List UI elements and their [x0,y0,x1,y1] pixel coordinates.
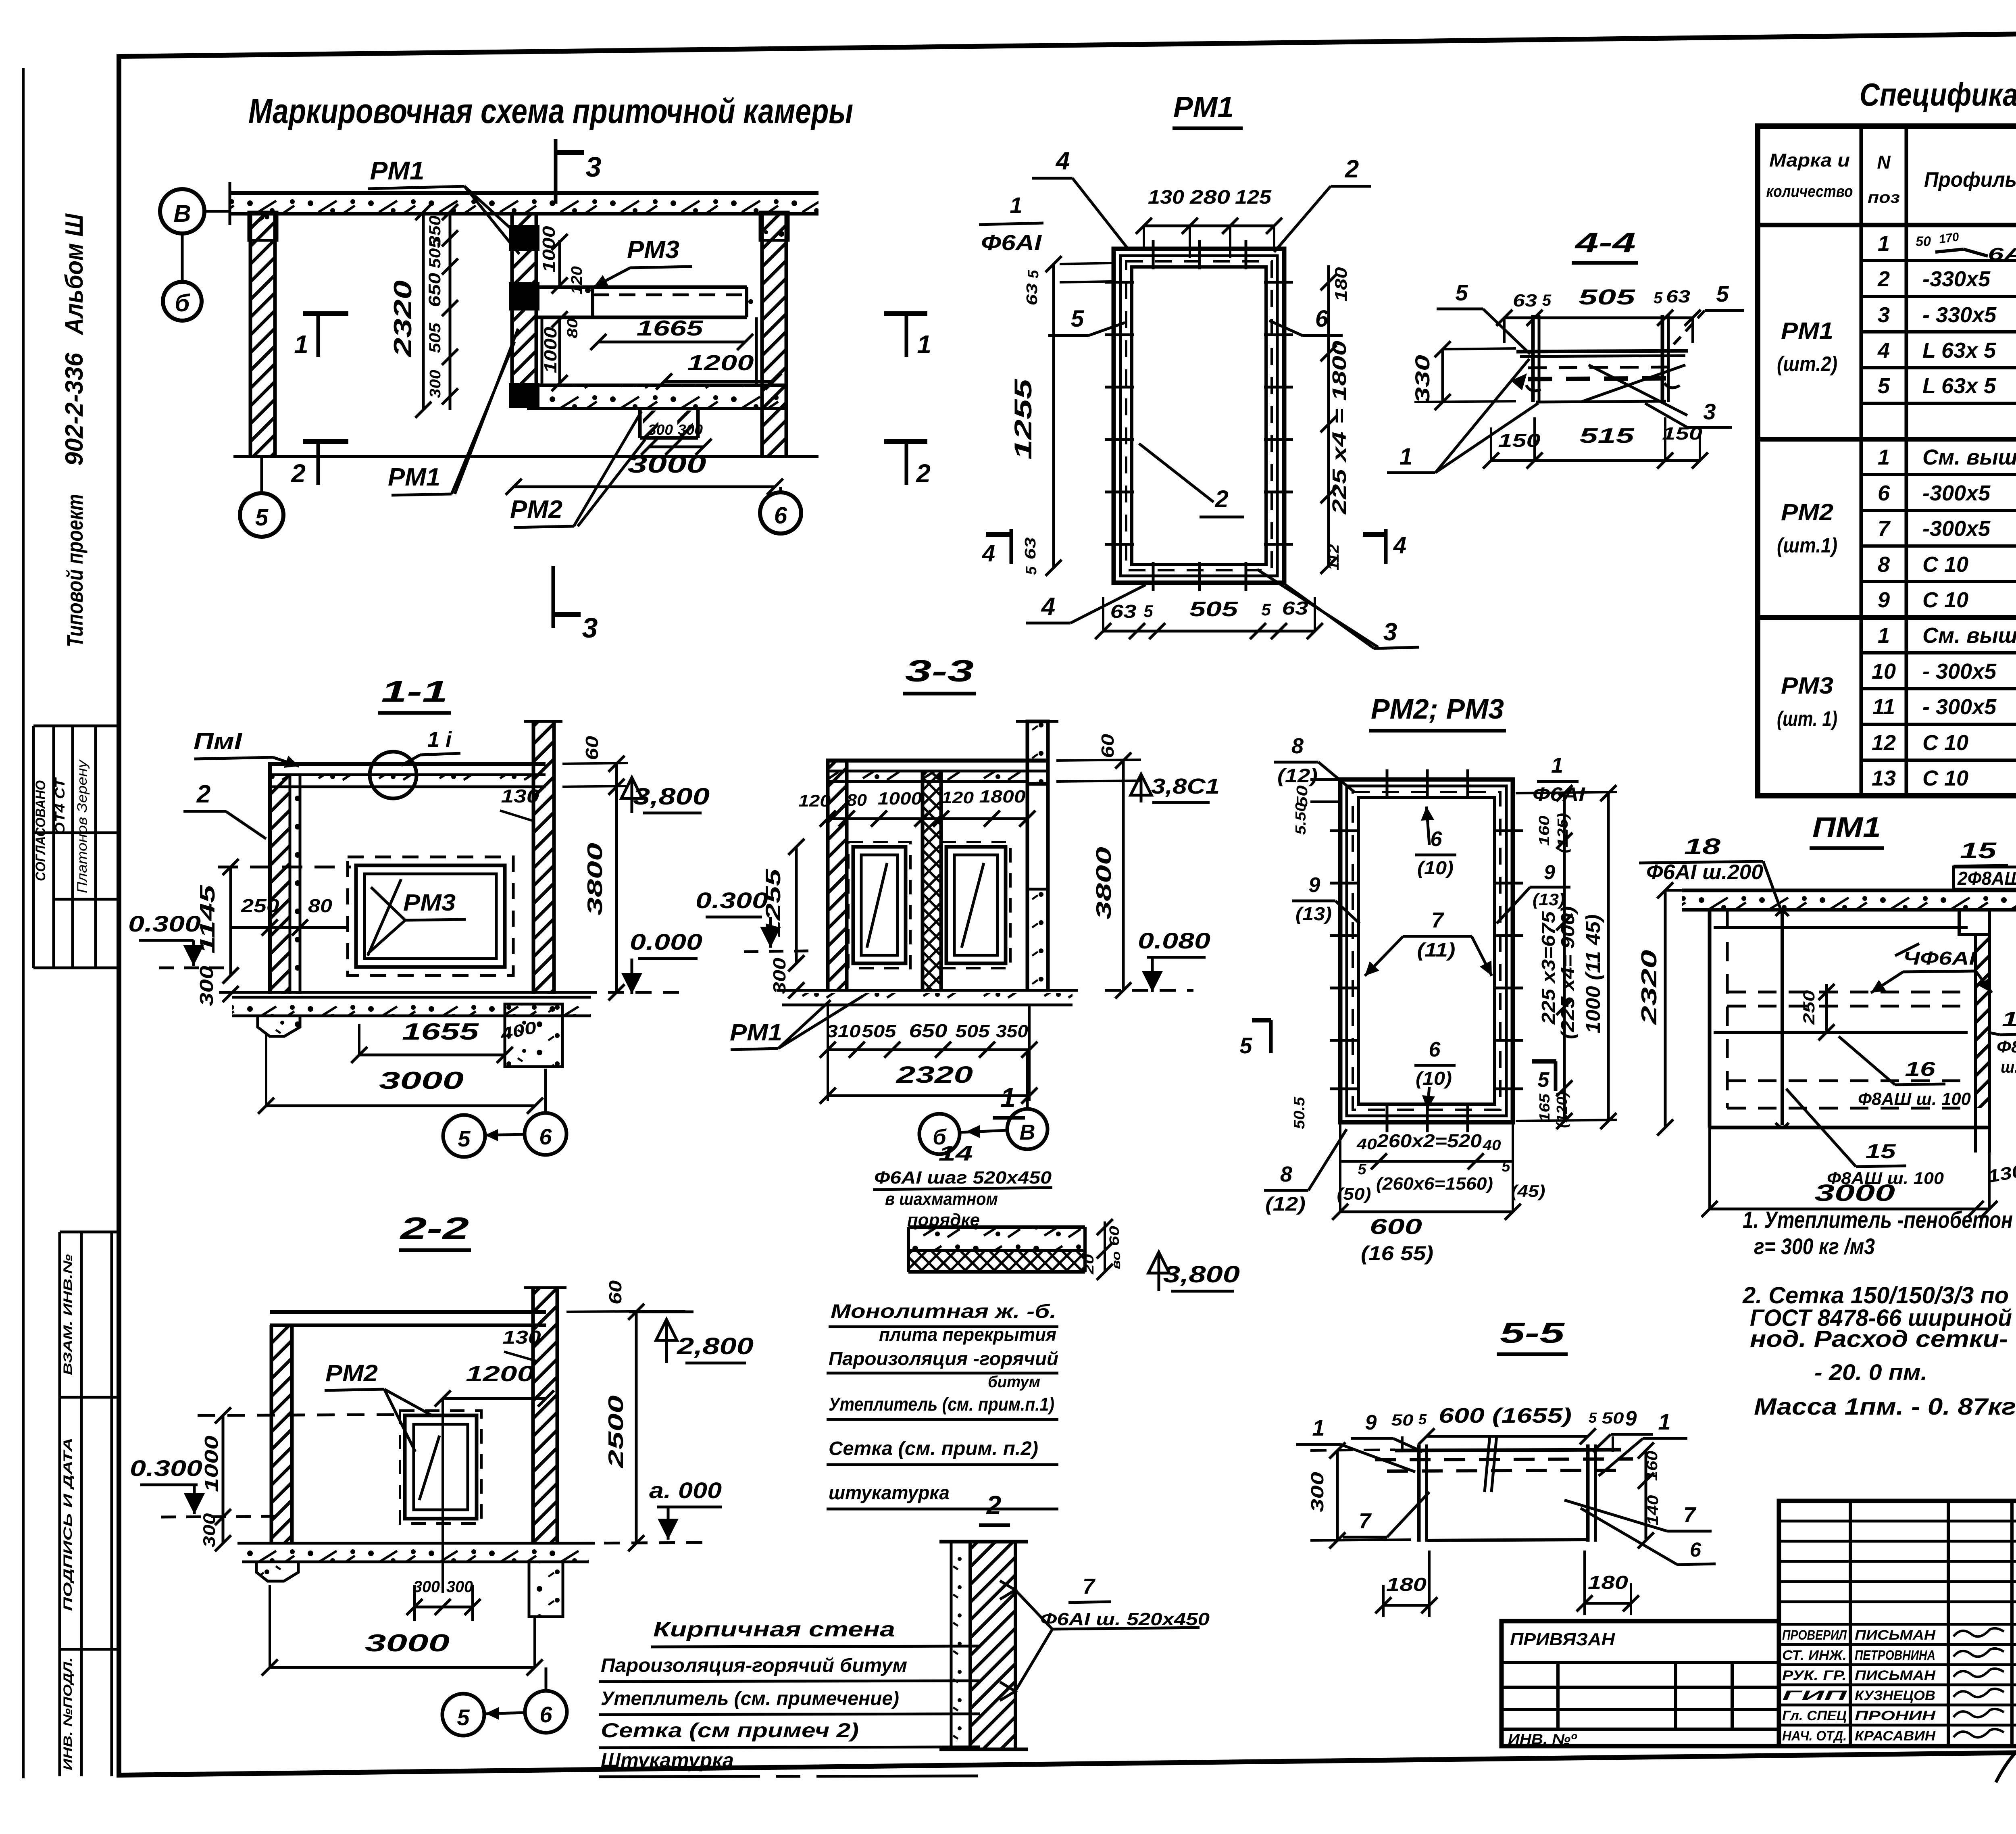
svg-text:1. Утеплитель -пенобетон: 1. Утеплитель -пенобетон [1743,1207,2013,1233]
2-2 dim 3000 [270,1666,535,1669]
4-4 channel bottom line [1536,401,1666,402]
svg-text:3800: 3800 [1092,847,1116,919]
svg-text:(225 х4= 900): (225 х4= 900) [1557,906,1578,1039]
svg-text:180: 180 [1331,267,1350,302]
svg-text:1000: 1000 [541,327,560,373]
svg-text:3,8С1: 3,8С1 [1151,774,1220,798]
svg-text:2: 2 [291,459,306,488]
svg-text:6: 6 [1429,1038,1441,1061]
svg-text:ЧФ6АІ: ЧФ6АІ [1903,948,1976,969]
spec table outer border [1758,126,2016,796]
4-4 channel right flange [1661,315,1664,402]
PM1 panel outline [1708,910,1712,1127]
spec table group separator lines [1758,437,2016,442]
svg-text:(10): (10) [1417,857,1454,878]
4-4 channel left flange [1531,315,1535,402]
RM2 section mark 5 right [1532,1059,1556,1064]
left margin lower box block [58,1232,61,1776]
svg-text:63: 63 [1022,538,1039,560]
5-5 dim 180 right [1585,1602,1631,1605]
1-1 axis circles 5 and 6 [443,1115,485,1157]
svg-text:80: 80 [564,318,581,338]
svg-text:ПРОВЕРИЛ: ПРОВЕРИЛ [1782,1628,1847,1643]
svg-text:Ф8АШ ш. 100: Ф8АШ ш. 100 [1858,1089,1971,1109]
svg-text:1: 1 [1000,1082,1016,1113]
3-3 window frame right [946,847,1006,963]
svg-text:4: 4 [1041,593,1055,621]
svg-text:3000: 3000 [1814,1180,1895,1206]
svg-text:Утеплитель (см. прим.п.1): Утеплитель (см. прим.п.1) [829,1394,1054,1415]
svg-text:80: 80 [308,895,332,916]
svg-text:ГИП: ГИП [1782,1688,1848,1703]
PM1 dim 2320 vertical [1664,890,1667,1127]
5-5 right channel flange [1586,1444,1590,1542]
svg-text:НАЧ. ОТД.: НАЧ. ОТД. [1782,1728,1847,1744]
svg-text:505: 505 [956,1021,990,1041]
svg-text:Альбом Ш: Альбом Ш [60,213,88,336]
svg-text:13: 13 [1872,766,1896,790]
svg-text:120: 120 [569,266,585,294]
svg-text:С 10: С 10 [1922,588,1968,612]
svg-text:- 300х5: - 300х5 [1922,659,1997,684]
plan left wall top concrete block [249,212,277,240]
svg-text:5: 5 [1025,270,1042,279]
svg-text:РМ3: РМ3 [403,890,456,916]
RM2 right dim lines [1563,793,1566,1121]
2-2 floor band [237,1542,595,1545]
PM1 top slab band [1682,889,2016,892]
svg-text:8: 8 [1878,552,1890,577]
svg-text:2: 2 [1877,267,1890,291]
svg-text:(125): (125) [1554,813,1571,853]
svg-text:0.300: 0.300 [128,911,201,936]
detail 1 slab band concrete layer [908,1227,1085,1250]
svg-text:ПРИВЯЗАН: ПРИВЯЗАН [1510,1630,1615,1649]
svg-text:180: 180 [1386,1574,1427,1595]
sheet outer margin line [22,68,25,1778]
svg-text:г= 300 кг /м3: г= 300 кг /м3 [1754,1234,1875,1259]
svg-text:5: 5 [1455,280,1468,305]
left margin approval box block [33,725,119,727]
svg-text:Платонов Зерену: Платонов Зерену [75,759,90,893]
svg-text:КРАСАВИН: КРАСАВИН [1855,1728,1936,1744]
svg-text:63: 63 [1282,598,1309,619]
svg-text:(шт. 1): (шт. 1) [1777,707,1837,731]
section cut mark 3 bottom [552,566,555,628]
PM1 vertical hook bar [1781,913,1784,1125]
1-1 right footing concrete [505,1004,562,1067]
svg-text:ИНВ. №º: ИНВ. №º [1508,1731,1577,1747]
1-1 top slab [268,762,546,766]
svg-text:ПИСЬМАН: ПИСЬМАН [1855,1628,1936,1643]
svg-text:5: 5 [255,504,269,531]
svg-text:14: 14 [939,1142,973,1165]
svg-text:РМ1: РМ1 [1173,91,1234,123]
svg-text:63: 63 [1110,601,1137,622]
svg-text:5: 5 [1589,1409,1597,1426]
svg-text:650: 650 [909,1020,948,1041]
RM1 bottom dims 63 5 505 5 63 [1103,630,1315,633]
svg-text:(12): (12) [1265,1194,1306,1215]
svg-text:Профиль: Профиль [1924,168,2016,192]
svg-text:2: 2 [1345,155,1359,183]
detail 2 wall section [951,1542,970,1749]
svg-text:битум: битум [988,1373,1040,1391]
svg-text:5-5: 5-5 [1500,1317,1565,1349]
svg-text:902-2-336: 902-2-336 [60,352,88,466]
svg-text:1655: 1655 [402,1019,479,1045]
1-1 right wall [533,721,554,994]
svg-text:(16 55): (16 55) [1361,1242,1433,1265]
svg-text:5: 5 [1716,281,1729,306]
svg-text:(120): (120) [1554,1092,1570,1128]
svg-text:ш. 100: ш. 100 [2001,1057,2016,1076]
svg-text:505: 505 [426,323,444,353]
svg-text:2-2: 2-2 [399,1211,469,1246]
svg-text:600 (1655): 600 (1655) [1439,1404,1572,1428]
svg-text:112: 112 [1325,544,1342,571]
svg-text:плита перекрытия: плита перекрытия [879,1324,1056,1345]
svg-text:(шт.1): (шт.1) [1777,534,1837,557]
svg-text:50.5: 50.5 [1291,1096,1308,1129]
plan top slab band [230,194,818,213]
svg-text:3,800: 3,800 [633,784,710,810]
5-5 dashed rebar lines [1375,1459,1633,1460]
svg-text:1: 1 [1010,192,1022,218]
svg-text:2,800: 2,800 [677,1333,754,1359]
3-3 top slab band [826,759,1048,763]
svg-text:150: 150 [1662,424,1703,444]
5-5 dims 160 140 right [1645,1451,1647,1540]
svg-text:1255: 1255 [1010,378,1037,460]
plan chamber opening bottom [638,408,642,438]
PM1 slab left dim extension [1665,889,1682,892]
1-1 dim 1145 [229,867,232,975]
svg-text:Ф8АШ: Ф8АШ [1997,1037,2016,1056]
svg-text:а. 000: а. 000 [649,1478,722,1503]
RM2 bottom dims [1340,1160,1513,1163]
5-5 dim 300 left [1336,1451,1339,1540]
svg-text:4: 4 [1055,147,1070,175]
svg-text:3000: 3000 [379,1067,464,1094]
plan dim chain 350-505-650-505-300 [449,212,452,410]
svg-text:9: 9 [1544,861,1555,884]
RM1 inner diagonal leader and label 2 [1139,444,1214,502]
RM2 section mark 5 left [1252,1018,1271,1023]
RM1 inner frame rect [1132,267,1266,565]
svg-text:N: N [1877,152,1891,173]
2-2 right wall [533,1288,557,1543]
svg-text:(11): (11) [1417,940,1456,961]
svg-text:ПМ1: ПМ1 [1812,811,1881,843]
svg-text:- 300х5: - 300х5 [1922,695,1997,719]
3-3 floor band [777,989,1078,992]
svg-text:(50): (50) [1337,1184,1371,1203]
svg-text:0.300: 0.300 [696,888,768,913]
svg-text:- 330х5: - 330х5 [1922,303,1997,327]
5-5 top lines [1395,1450,1621,1451]
svg-text:160: 160 [1644,1451,1661,1481]
plan dim 1665 [598,341,745,344]
PM1 top rebar line [1714,926,1968,929]
detail 1 right small dims 20 60 80 [1104,1221,1106,1272]
RM2 inner rect [1358,798,1495,1104]
svg-text:1000: 1000 [201,1435,222,1492]
svg-text:5: 5 [1418,1411,1427,1428]
svg-text:-330х5: -330х5 [1922,267,1991,291]
svg-text:8: 8 [1291,734,1304,758]
5-5 dim 180 left [1383,1604,1429,1607]
svg-text:5: 5 [457,1705,470,1730]
svg-text:10: 10 [1872,659,1896,684]
3-3 right column concrete upper [1027,721,1048,784]
svg-text:650: 650 [425,273,444,307]
svg-text:(12): (12) [1277,765,1318,787]
svg-text:ИНВ. №ПОДЛ.: ИНВ. №ПОДЛ. [61,1657,75,1770]
svg-text:поз: поз [1868,189,1900,206]
svg-text:5: 5 [1878,374,1890,398]
svg-text:1: 1 [1878,623,1890,648]
svg-text:5: 5 [1261,600,1271,619]
RM1 right dim 180 and 225x4 [1327,265,1330,566]
svg-text:300: 300 [196,965,217,1006]
svg-text:Сетка (см. прим. п.2): Сетка (см. прим. п.2) [829,1438,1038,1459]
svg-text:5: 5 [1542,292,1552,309]
svg-text:6: 6 [539,1702,552,1727]
svg-text:12: 12 [1872,731,1896,755]
RM1 top dim 130 280 125 [1144,225,1274,227]
svg-text:в шахматном: в шахматном [885,1189,998,1209]
svg-text:2320: 2320 [389,280,417,357]
3-3 window frame left [853,847,906,963]
svg-text:15: 15 [1960,838,1997,863]
PM1 right hatched rib [1976,934,1989,1108]
svg-text:количество: количество [1766,183,1853,200]
2-2 window RM2 [405,1415,477,1519]
plan right wall top concrete block [760,212,788,240]
RM2 second rect [1347,786,1506,1116]
5-5 left channel flange [1417,1444,1421,1542]
svg-text:2Ф8АШ: 2Ф8АШ [1957,868,2016,889]
RM1 left dim 1255 [1052,264,1055,568]
svg-text:2320: 2320 [896,1062,973,1088]
svg-text:Ф6АІ ш.200: Ф6АІ ш.200 [1646,861,1763,884]
svg-text:РМ2: РМ2 [510,496,562,523]
4-4 channel top web lines [1516,351,1688,352]
2-2 dim 300 300 bottom [414,1606,443,1609]
titleblock handwritten signatures [1954,1628,2004,1636]
svg-text:Штукатурка: Штукатурка [601,1749,734,1771]
3-3 middle wall [923,771,941,990]
svg-text:во: во [1110,1251,1123,1269]
svg-text:3: 3 [1878,303,1890,327]
svg-text:3-3: 3-3 [905,654,974,688]
svg-text:3,800: 3,800 [1163,1261,1240,1288]
svg-text:165: 165 [1536,1093,1553,1122]
svg-text:1: 1 [1878,445,1890,469]
svg-text:1: 1 [1551,753,1563,777]
svg-text:В: В [1020,1120,1035,1144]
svg-text:Ф6АІ: Ф6АІ [981,231,1042,255]
1-1 window RM3 frames [356,865,505,967]
svg-text:3: 3 [1383,618,1397,646]
RM1 inner dashed rebar rect [1126,261,1272,570]
svg-text:5: 5 [1239,1033,1252,1058]
svg-text:170: 170 [1938,230,1960,246]
svg-text:Ф6АІ: Ф6АІ [1533,784,1586,805]
plan dim 300 300 [649,446,673,448]
plan section cut 2 right [884,439,927,444]
svg-text:7: 7 [1683,1503,1697,1527]
plan section cut 2 left [303,439,348,444]
detail 1 bottom hatch layer [908,1250,1085,1272]
svg-text:330: 330 [1411,355,1434,403]
svg-text:15: 15 [1866,1140,1897,1163]
2-2 top slab [270,1310,546,1314]
plan duct RM3 [536,286,747,289]
svg-text:Монолитная ж. -б.: Монолитная ж. -б. [831,1301,1056,1322]
svg-text:Пароизоляция -горячий: Пароизоляция -горячий [829,1348,1058,1369]
svg-text:2: 2 [916,459,931,488]
plan dim 1200 [664,380,773,383]
svg-text:С 10: С 10 [1922,766,1968,790]
2-2 axis circles 5 6 [442,1694,484,1736]
1-1 dim 3000 [266,1105,535,1107]
svg-text:60: 60 [582,736,602,760]
svg-text:Типовой проект: Типовой проект [62,494,87,647]
4-4 hooks [1526,385,1541,391]
RM1 transverse bar ticks top and bottom edges [1152,240,1155,269]
svg-text:-300х5: -300х5 [1922,481,1991,505]
svg-text:L 63х 5: L 63х 5 [1922,374,1996,398]
2-2 right footing concrete [529,1562,563,1617]
RM2 bottom dim 600 1655 [1340,1211,1513,1213]
plan left wall [250,214,275,456]
svg-text:6: 6 [1878,481,1890,505]
plan floor line [233,455,818,458]
svg-text:1200: 1200 [466,1362,534,1386]
svg-text:РМ2; РМ3: РМ2; РМ3 [1371,693,1504,725]
3-3 dim 2320 [828,1094,1029,1097]
svg-text:515: 515 [1580,424,1635,448]
svg-text:Утеплитель (см. примечение): Утеплитель (см. примечение) [601,1688,899,1709]
svg-text:300: 300 [770,957,789,994]
svg-text:(шт.2): (шт.2) [1777,352,1837,376]
svg-text:50: 50 [1391,1411,1414,1429]
5-5 bottom line [1427,1540,1588,1540]
RM2 edge ticks [1330,829,1360,832]
svg-text:350: 350 [996,1021,1029,1041]
svg-text:- 20. 0 пм.: - 20. 0 пм. [1814,1359,1927,1385]
1-1 left footing blob [258,1016,300,1036]
svg-text:8: 8 [1280,1162,1292,1186]
svg-text:Ф6АІ ш. 520х450: Ф6АІ ш. 520х450 [1040,1609,1210,1629]
svg-text:2: 2 [1214,486,1228,513]
svg-text:(13): (13) [1533,890,1565,909]
svg-text:ПРОНИН: ПРОНИН [1855,1708,1936,1724]
svg-text:0.000: 0.000 [630,929,702,955]
svg-text:7: 7 [1359,1509,1372,1533]
svg-text:1-1: 1-1 [381,675,448,708]
svg-text:6: 6 [539,1124,552,1149]
svg-text:180: 180 [1588,1572,1629,1593]
svg-text:130: 130 [503,1327,541,1348]
svg-text:300: 300 [648,421,673,438]
svg-text:2320: 2320 [1637,950,1661,1025]
svg-text:0.300: 0.300 [130,1455,202,1481]
svg-text:63: 63 [1513,291,1537,311]
1-1 dim 3800 vertical [615,764,618,992]
RM1 second frame rect [1120,256,1277,576]
svg-text:310: 310 [827,1021,861,1041]
svg-text:5: 5 [1071,306,1084,332]
svg-text:20: 20 [1081,1254,1097,1275]
svg-text:125: 125 [1235,187,1272,208]
axis circle 6 plan [760,492,801,534]
svg-text:СОГЛАСОВАНО: СОГЛАСОВАНО [33,780,48,881]
5-5 break marks middle [1485,1436,1490,1492]
titleblock privyazan box [1502,1621,1779,1746]
svg-text:1800: 1800 [979,787,1026,807]
2-2 left wall [271,1325,292,1543]
svg-text:3800: 3800 [583,843,607,915]
RM2 outer rect [1340,779,1513,1122]
axis circle 5 plan [240,493,283,537]
svg-text:300: 300 [200,1513,219,1548]
svg-text:63: 63 [1666,287,1690,306]
svg-text:(260х6=1560): (260х6=1560) [1376,1174,1493,1194]
svg-text:штукатурка: штукатурка [829,1482,950,1504]
svg-text:2: 2 [196,780,210,808]
svg-text:ПмI: ПмI [194,728,243,754]
svg-text:1000 (11 45): 1000 (11 45) [1582,915,1604,1034]
RM1 transverse bar ticks left edge [1105,281,1134,284]
svg-text:505: 505 [426,238,444,269]
3-3 axis circles b and V [919,1114,960,1154]
svg-text:5: 5 [1654,289,1663,307]
svg-text:63: 63 [1024,283,1041,306]
svg-text:КУЗНЕЦОВ: КУЗНЕЦОВ [1855,1688,1935,1703]
3-3 right column concrete lower [1027,889,1048,990]
plan chamber bottom band [536,383,786,387]
svg-text:РМ3: РМ3 [1781,673,1833,699]
plan right wall [762,214,786,456]
svg-text:260х2=520: 260х2=520 [1377,1130,1482,1151]
svg-text:Масса 1пм. - 0. 87кг: Масса 1пм. - 0. 87кг [1754,1394,2016,1420]
svg-text:225 х3=675: 225 х3=675 [1538,911,1559,1025]
5-5 top dims [1427,1435,1588,1438]
svg-text:ВЗАМ. ИНВ.№: ВЗАМ. ИНВ.№ [61,1254,75,1375]
svg-text:С 10: С 10 [1922,552,1968,577]
3-3 dim 3800 vertical right [1122,761,1125,990]
svg-text:16: 16 [1905,1058,1936,1080]
1-1 left wall [270,776,290,994]
svg-text:СТ. ИНЖ.: СТ. ИНЖ. [1782,1648,1847,1663]
svg-text:Марка и: Марка и [1769,150,1850,171]
svg-text:ПОДПИСЬ И ДАТА: ПОДПИСЬ И ДАТА [61,1438,75,1611]
4-4 big cross lines [1581,365,1685,402]
svg-text:600: 600 [1370,1215,1422,1239]
svg-text:(45): (45) [1511,1182,1545,1200]
1-1 window RM3 dashed outer [348,857,513,975]
svg-text:ОТ4 СТ: ОТ4 СТ [52,777,68,835]
svg-text:7: 7 [1878,517,1891,541]
svg-text:РМ1: РМ1 [1781,318,1833,344]
svg-text:40: 40 [1356,1136,1377,1153]
svg-text:60: 60 [1107,1226,1122,1246]
svg-text:В: В [173,200,191,227]
svg-text:нод. Расход сетки-: нод. Расход сетки- [1750,1326,2008,1352]
